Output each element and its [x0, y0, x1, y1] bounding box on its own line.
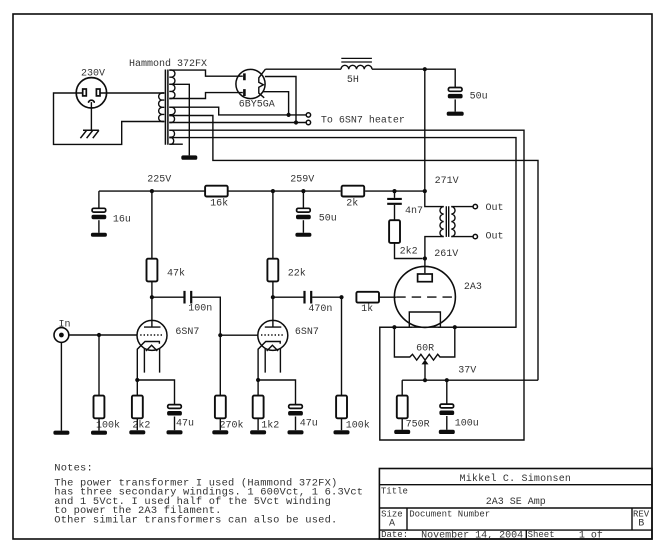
hum pot 60R	[394, 327, 454, 380]
junction rail 4n7 tap	[392, 189, 396, 193]
wire 100k 2A3 to ground	[341, 418, 343, 430]
junction rectifier heater A	[294, 120, 298, 124]
svg-text:470n: 470n	[308, 304, 332, 315]
svg-text:100u: 100u	[455, 418, 479, 429]
terminal Out lower	[473, 234, 477, 238]
wire 2k2 zobel to 261V node	[395, 243, 423, 259]
wire stage1 cathode to 47u	[137, 380, 174, 405]
wire rectifier cathode to choke	[265, 68, 341, 70]
resistor 47k	[147, 259, 186, 282]
wire 16u to ground	[98, 220, 100, 233]
svg-text:Title: Title	[381, 486, 408, 496]
svg-text:Document Number: Document Number	[409, 510, 490, 520]
wire 50u mid to ground	[302, 220, 304, 233]
wire 100k input to ground	[98, 418, 100, 430]
ground bar HV center tap	[181, 155, 197, 159]
junction rail 50u tap	[301, 189, 305, 193]
wire plug right pin to transformer primary top	[100, 92, 164, 94]
junction filament right to 60R	[453, 325, 457, 329]
wire 100n to stage2 grid	[192, 297, 258, 335]
junction input 100k tap	[97, 333, 101, 337]
junction cathode wiper	[423, 378, 427, 382]
svg-text:2k2: 2k2	[132, 420, 150, 432]
ground bar 270k	[212, 430, 228, 434]
rectifier tube 6BY5GA	[236, 69, 275, 110]
svg-text:47u: 47u	[176, 418, 194, 429]
svg-text:100k: 100k	[346, 420, 370, 432]
wire cathode node to 100u	[446, 380, 448, 404]
ground bar 47u stage1	[167, 430, 183, 434]
capacitor 4n7	[387, 199, 423, 217]
wire rail to 16u	[98, 191, 100, 208]
svg-text:2A3 SE Amp: 2A3 SE Amp	[486, 497, 546, 508]
mains plug 230V	[76, 69, 106, 108]
junction 100k grid tap	[339, 295, 343, 299]
svg-text:Hammond 372FX: Hammond 372FX	[129, 58, 207, 70]
junction rail 22k tap	[271, 189, 275, 193]
resistor 2k2 zobel	[389, 220, 418, 257]
svg-text:Date:: Date:	[381, 530, 408, 540]
wire rail to OT primary	[425, 191, 444, 207]
wire stage2 cathode to 1k2	[257, 380, 259, 396]
ground bar 50u reservoir	[447, 112, 464, 116]
svg-text:1k2: 1k2	[261, 420, 279, 432]
capacitor 100u cathode	[439, 404, 478, 429]
ground bar 50u decoupling	[295, 233, 311, 237]
junction cathode 100u tap	[445, 378, 449, 382]
svg-text:Other similar transformers can: Other similar transformers can also be u…	[54, 514, 337, 526]
wire 6.3V top lead to heater line	[169, 107, 306, 115]
wire 750R to ground	[401, 418, 403, 430]
ground bar 750R	[394, 430, 410, 434]
wire 470n left lead	[273, 296, 304, 298]
svg-text:2k2: 2k2	[400, 245, 418, 257]
wire rail to 4n7	[394, 191, 396, 198]
svg-text:Mikkel C. Simonsen: Mikkel C. Simonsen	[460, 473, 572, 485]
ground bar 2k2 cathode	[129, 430, 145, 434]
capacitor 47u stage1	[167, 405, 194, 430]
ground bar input jack	[53, 431, 69, 435]
junction stage2 cathode	[256, 378, 260, 382]
wire rail 225V segment	[99, 190, 205, 192]
capacitor 47u stage2	[288, 405, 318, 430]
svg-text:16u: 16u	[113, 214, 131, 225]
resistor 270k	[215, 396, 244, 432]
terminal Out upper	[473, 204, 477, 208]
svg-text:259V: 259V	[290, 175, 314, 186]
wire 100k 2A3 grid leak lead	[341, 297, 343, 395]
svg-text:Notes:: Notes:	[54, 462, 93, 474]
resistor 2k	[342, 186, 365, 210]
terminal heater upper	[306, 113, 310, 117]
wire input to 6SN7 grid	[69, 334, 137, 336]
wire input jack to ground	[60, 342, 62, 430]
svg-text:50u: 50u	[470, 91, 488, 102]
notes text	[54, 462, 363, 526]
junction stage2 grid	[218, 333, 222, 337]
svg-text:4n7: 4n7	[405, 206, 423, 217]
wire 100u to ground	[446, 416, 448, 430]
resistor 1k2 cathode	[253, 396, 280, 432]
wire 47u stage1 to ground	[174, 417, 176, 431]
resistor 750R	[397, 396, 430, 431]
wire 270k lead	[219, 335, 221, 395]
svg-text:In: In	[59, 319, 71, 330]
svg-text:2A3: 2A3	[464, 282, 482, 293]
ground bar 47u stage2	[288, 430, 304, 434]
wire choke to 50u and B+ node	[372, 69, 455, 87]
junction stage1 cathode	[135, 378, 139, 382]
wire rail to 22k	[272, 191, 274, 259]
svg-text:6SN7: 6SN7	[295, 327, 319, 338]
wire B+ node down to 271V rail	[424, 69, 426, 191]
wire 6.3V center tap to 2A3 cathode node	[169, 116, 538, 381]
svg-text:50u: 50u	[319, 214, 337, 225]
wire rail middle segment	[228, 190, 341, 192]
svg-text:1k: 1k	[361, 303, 373, 315]
junction B+ node	[423, 67, 427, 71]
capacitor 50u decoupling	[296, 208, 337, 224]
wire 2k2 cathode to ground	[136, 418, 138, 430]
wire 22k to 6SN7 anode	[272, 281, 274, 327]
svg-text:1 of: 1 of	[579, 530, 603, 542]
wire 5V center tap to 2A3 filament right	[169, 138, 516, 328]
wire rail to 50u mid	[302, 191, 304, 208]
wire stage2 cathode to 47u	[258, 380, 295, 405]
wire rectifier heater A to lower heater line	[265, 77, 296, 123]
svg-text:B: B	[638, 518, 644, 529]
wire 2A3 filament line	[380, 326, 516, 328]
svg-text:22k: 22k	[288, 267, 306, 279]
wire HV top lead to rectifier top plate	[169, 70, 243, 76]
svg-text:A: A	[389, 518, 395, 529]
svg-text:November 14, 2004: November 14, 2004	[421, 530, 523, 542]
wire OT secondary bottom to Out	[451, 236, 473, 238]
svg-text:Out: Out	[486, 203, 504, 214]
terminal heater lower	[306, 120, 310, 124]
wire 4n7 to 2k2	[394, 205, 396, 220]
wire 100n left lead	[152, 296, 184, 298]
junction rail 47k tap	[150, 189, 154, 193]
junction rail OT primary top	[423, 189, 427, 193]
svg-text:750R: 750R	[406, 419, 430, 430]
triode 6SN7 stage 2	[258, 320, 319, 380]
wire HV center tap to ground	[169, 84, 189, 155]
wire 100k grid leak lead	[98, 335, 100, 396]
wire cathode node to 750R	[401, 380, 403, 396]
resistor 100k grid 2A3	[336, 396, 370, 432]
wire 1k to 2A3 grid	[379, 296, 396, 298]
wire 47k to 6SN7 anode	[151, 281, 153, 327]
wire plug left pin loop to transformer primary bottom	[54, 93, 165, 144]
resistor 1k grid stopper	[356, 292, 379, 315]
junction filament left to 60R	[392, 325, 396, 329]
wire 2A3 cathode node line	[402, 379, 538, 381]
ground bar 1k2	[250, 430, 266, 434]
svg-text:100n: 100n	[188, 303, 212, 314]
junction 261V node	[423, 256, 427, 260]
wire 1k2 to ground	[257, 418, 259, 430]
resistor 22k	[267, 259, 305, 282]
wire 47u stage2 to ground	[295, 417, 297, 431]
choke 5H	[341, 58, 372, 86]
capacitor 50u reservoir	[448, 88, 488, 103]
svg-text:271V: 271V	[435, 176, 459, 187]
power tube 2A3	[394, 266, 482, 327]
earth ground symbol	[80, 130, 99, 138]
svg-text:230V: 230V	[81, 69, 105, 80]
wire rectifier heater B to upper heater line	[263, 92, 288, 115]
capacitor 470n	[305, 291, 333, 315]
wire OT secondary top to Out	[451, 206, 473, 208]
wire rail right segment	[365, 190, 425, 192]
wire stage1 cathode to 2k2	[136, 380, 138, 396]
svg-text:47u: 47u	[300, 418, 318, 429]
svg-text:60R: 60R	[416, 343, 434, 354]
resistor 2k2 cathode	[132, 396, 151, 432]
wire rail to 47k	[151, 191, 153, 259]
svg-text:To 6SN7 heater: To 6SN7 heater	[321, 114, 405, 126]
junction 22k 470n tap	[271, 295, 275, 299]
junction 47k 100n tap	[150, 295, 154, 299]
ground bar 16u	[91, 233, 107, 237]
input jack In	[54, 319, 71, 342]
ground bar 100k input	[91, 431, 107, 435]
svg-text:Sheet: Sheet	[528, 530, 555, 540]
svg-text:261V: 261V	[434, 249, 458, 260]
junction rectifier heater B	[287, 113, 291, 117]
capacitor 16u	[92, 208, 131, 225]
wire OT primary bottom to 261V node	[425, 237, 444, 274]
wire 6.3V bottom lead to heater terminal	[169, 122, 306, 124]
wire plug earth lead	[90, 102, 92, 130]
output transformer	[440, 206, 455, 237]
svg-text:6BY5GA: 6BY5GA	[239, 100, 275, 111]
capacitor 100n	[185, 291, 213, 315]
wire 270k to ground	[219, 418, 221, 430]
svg-text:16k: 16k	[210, 197, 228, 209]
resistor 100k input	[94, 396, 121, 432]
svg-text:Out: Out	[486, 232, 504, 243]
wire HV bottom lead to rectifier bottom plate	[169, 93, 243, 99]
triode 6SN7 stage 1	[137, 320, 199, 380]
ground bar 100k 2A3	[334, 430, 350, 434]
svg-text:6SN7: 6SN7	[175, 327, 199, 338]
svg-text:225V: 225V	[147, 175, 171, 186]
wire 5V top lead to 2A3 filament left	[169, 130, 524, 440]
title block	[379, 469, 652, 542]
svg-text:270k: 270k	[220, 420, 244, 432]
svg-text:2k: 2k	[346, 197, 358, 209]
svg-text:5H: 5H	[347, 75, 359, 86]
ground bar 100u	[439, 430, 455, 434]
resistor 16k	[205, 186, 228, 210]
wire 5V unused stub	[169, 143, 183, 145]
wire 470n to 1k	[312, 296, 341, 298]
svg-text:37V: 37V	[458, 365, 476, 376]
power transformer Hammond 372FX	[129, 58, 207, 145]
svg-text:47k: 47k	[167, 267, 185, 279]
wire 50u to ground	[454, 99, 456, 111]
